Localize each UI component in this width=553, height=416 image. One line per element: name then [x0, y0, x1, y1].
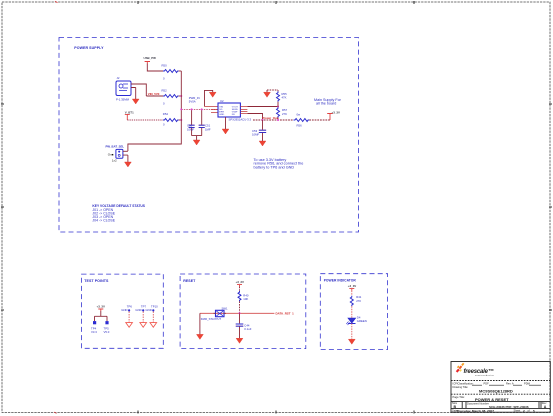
bus wire down to battery select [128, 71, 181, 151]
test point TP10 ground [146, 304, 159, 327]
ground under J2 [132, 99, 139, 104]
svg-text:+3_3V: +3_3V [236, 280, 245, 284]
POWER SUPPLY section box [59, 38, 359, 233]
capacitor C51 [199, 109, 211, 135]
wire between divider resistors [277, 102, 279, 107]
wire R41 to LED [351, 306, 353, 318]
junction reset [239, 312, 241, 314]
svg-text:10K: 10K [243, 297, 248, 301]
resistor R56 [294, 113, 310, 128]
ground under C44 [236, 338, 243, 343]
wire to R41 [351, 291, 353, 296]
ground under LED [348, 339, 355, 344]
power tap +3_3V test points [97, 304, 106, 311]
test point TP6 ground [121, 304, 132, 327]
svg-text:5V0A: 5V0A [189, 100, 196, 104]
svg-text:USB_PW: USB_PW [144, 56, 157, 60]
wire jumper pin1 [123, 150, 128, 152]
svg-text:POWER SUPPLY: POWER SUPPLY [74, 46, 104, 50]
svg-text:PDM: PDM [524, 381, 530, 385]
wire regulator pin1 to ground arrow [205, 90, 213, 106]
svg-text:J04 -> CLOSE: J04 -> CLOSE [92, 219, 115, 223]
svg-text:VTAP: VTAP [232, 111, 238, 114]
ground under U2 [222, 129, 229, 134]
ground at regulator shutdown pin [209, 92, 216, 97]
svg-text:Thursday, March 08, 2007: Thursday, March 08, 2007 [457, 409, 495, 413]
svg-text:Power_Out: Power_Out [263, 116, 278, 120]
svg-text:2: 2 [523, 409, 525, 413]
svg-text:47K: 47K [282, 96, 287, 100]
title block [451, 362, 550, 413]
test point TP4 [91, 321, 97, 334]
wire LED to ground [351, 323, 353, 339]
svg-text:1MF: 1MF [205, 128, 211, 132]
wire divider top [267, 89, 278, 91]
svg-text:0.1uF: 0.1uF [244, 327, 251, 331]
wire R54 to bus [179, 119, 182, 121]
wire jumper pin2 to ground [123, 155, 128, 162]
junction bus row2 [180, 95, 182, 97]
svg-text:semiconductor: semiconductor [475, 374, 494, 377]
svg-text:GND: GND [121, 308, 127, 312]
svg-text:Drawing Title:: Drawing Title: [453, 385, 469, 389]
wire divider bottom to rail [277, 118, 279, 120]
svg-text:PW_BAT_SEL: PW_BAT_SEL [106, 145, 125, 149]
ground under C53 [259, 141, 266, 146]
svg-text:10MF: 10MF [252, 133, 259, 137]
resistor R52 [162, 89, 179, 106]
svg-text:Page Title:: Page Title: [453, 395, 466, 399]
svg-text:Rev: A: Rev: A [506, 381, 514, 385]
title block fields [452, 381, 547, 412]
svg-text:R52: R52 [162, 89, 168, 93]
wire R50 to bus [179, 70, 182, 72]
test point TP7 ground [135, 304, 146, 327]
test point TP5 [104, 321, 110, 334]
svg-text:R56: R56 [297, 124, 303, 128]
wire V_BT1 to R54 [127, 119, 163, 121]
wire switch to ground [199, 313, 201, 334]
svg-text:GND: GND [219, 114, 224, 116]
wire reset rail [200, 312, 275, 314]
wire row2 to R52 [146, 95, 163, 97]
svg-text:V_BT1: V_BT1 [125, 110, 134, 114]
svg-text:J2: J2 [117, 76, 120, 80]
svg-text:V5.0: V5.0 [104, 330, 110, 334]
svg-text:DATA_RST 1: DATA_RST 1 [276, 312, 295, 316]
resistor R41 [350, 295, 361, 306]
svg-text:battery to TP6 and GND: battery to TP6 and GND [254, 165, 295, 169]
svg-text:R54: R54 [163, 112, 169, 116]
capacitor C44 [236, 313, 252, 338]
wire U2 outputs to divider [240, 107, 247, 114]
wire to R40 [239, 287, 241, 291]
junction divider mid [277, 106, 279, 108]
svg-text:5: 5 [533, 409, 535, 413]
op-amp U2 voltage regulator [218, 99, 251, 121]
LED D4 [346, 316, 366, 326]
resistor R54 [163, 112, 179, 127]
power tap +3_3V reset [236, 280, 245, 287]
note key voltage defaults [92, 204, 145, 223]
svg-text:R50: R50 [162, 64, 168, 68]
TEST POINTS section box [82, 274, 164, 348]
svg-text:On■: On■ [108, 153, 114, 157]
svg-text:+3_3V: +3_3V [348, 284, 357, 288]
wire bus to regulator input [181, 108, 218, 110]
svg-text:Document Number: Document Number [467, 401, 489, 405]
connector J2 barrel jack [116, 76, 131, 102]
svg-text:Sheet: Sheet [514, 409, 521, 413]
svg-text:+3_3V: +3_3V [332, 110, 341, 114]
svg-text:27K: 27K [282, 112, 287, 116]
svg-text:RESET: RESET [183, 279, 196, 283]
svg-text:+3_3V: +3_3V [97, 304, 106, 308]
wire test point tree [95, 311, 108, 321]
svg-text:MC9S08QE128RD: MC9S08QE128RD [479, 388, 513, 393]
wire R40 to junction [239, 301, 241, 313]
capacitor C50 [187, 109, 195, 135]
output rail wire [253, 119, 330, 121]
svg-text:V3.3: V3.3 [91, 330, 97, 334]
svg-text:all the board: all the board [316, 102, 336, 106]
junction rail/cap [262, 119, 264, 121]
resistor R57 [277, 107, 288, 117]
wire J2 pin1 [131, 84, 146, 96]
svg-text:POWER INDICATOR: POWER INDICATOR [324, 279, 357, 283]
svg-text:VIN_5V0: VIN_5V0 [148, 92, 160, 96]
svg-text:TP6: TP6 [127, 304, 133, 308]
svg-text:GREEN: GREEN [357, 319, 367, 323]
junction caps [191, 108, 193, 110]
jumper J3 PWR select [106, 145, 125, 163]
net label PWR_IN [189, 96, 200, 104]
wire stubs into U2 left [205, 107, 219, 113]
capacitor C53 [252, 120, 266, 141]
svg-text:of: of [528, 409, 530, 413]
svg-text:SW1: SW1 [222, 306, 229, 310]
svg-text:ICP/Classification:: ICP/Classification: [453, 381, 474, 385]
resistor R55 [277, 90, 288, 102]
POWER INDICATOR section box [320, 274, 387, 350]
svg-text:270: 270 [356, 299, 361, 303]
power tap USB_PW [144, 56, 157, 64]
svg-text:TEST POINTS: TEST POINTS [84, 279, 109, 283]
ground at divider top [264, 90, 271, 97]
wire joining caps to ground [192, 136, 202, 140]
terminal V_BT1 [125, 110, 134, 120]
junction rail/divider [277, 119, 279, 121]
wire from USB_PW to R50 [147, 64, 163, 72]
RESET section box [180, 274, 306, 349]
ground under jumper [125, 162, 132, 167]
svg-text:A: A [544, 405, 547, 409]
wire U2 ground pin [225, 117, 227, 129]
junction VREG row [180, 108, 182, 110]
ground left of switch [197, 334, 204, 339]
ground under caps [193, 140, 200, 145]
svg-text:10MF: 10MF [187, 128, 194, 132]
note main supply [314, 98, 342, 106]
resistor R40 [238, 291, 249, 301]
svg-text:SPX2951ACU-3.3: SPX2951ACU-3.3 [229, 117, 252, 121]
svg-text:TP10: TP10 [151, 304, 158, 308]
freescale logo [456, 363, 495, 377]
svg-text:freescale™: freescale™ [464, 368, 494, 375]
resistor R50 [162, 64, 179, 81]
svg-text:P-1.35MM: P-1.35MM [116, 98, 130, 102]
svg-text:PDF: PDF [484, 381, 490, 385]
svg-text:1x2: 1x2 [112, 159, 117, 163]
switch SW1 [201, 306, 228, 321]
svg-text:GND: GND [146, 308, 152, 312]
svg-text:U2: U2 [220, 99, 224, 103]
note battery usage [254, 158, 304, 170]
power symbol +3_3V [327, 110, 340, 120]
svg-text:GND: GND [135, 308, 141, 312]
svg-text:KMR_STAYPUT: KMR_STAYPUT [201, 317, 222, 321]
power tap +3_3V indicator [348, 284, 357, 291]
junction bus row3 [180, 119, 182, 121]
wire R52 to bus [179, 95, 182, 97]
wire J2 pin2 to ground [131, 88, 136, 100]
